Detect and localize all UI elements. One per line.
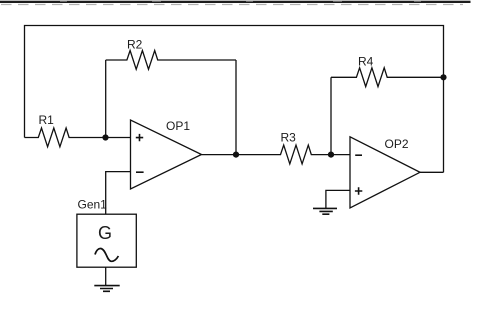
resistor R3 [236, 145, 331, 164]
svg-text:Gen1: Gen1 [78, 198, 108, 212]
wire feedback: node D up, across top, down to R1 input [25, 26, 444, 138]
ground symbol (Gen1) [94, 286, 119, 292]
wire node C to OP2 - input [331, 154, 350, 156]
svg-text:OP1: OP1 [166, 119, 190, 133]
wire node A to OP1 + input [106, 137, 131, 139]
svg-text:R4: R4 [358, 55, 374, 69]
svg-text:OP2: OP2 [385, 137, 409, 151]
wire OP2 output up to node D [443, 77, 445, 172]
ground symbol (OP2) [313, 208, 337, 214]
wire OP1 - input to Gen1 [106, 172, 131, 215]
svg-text:R3: R3 [281, 131, 297, 145]
svg-text:R1: R1 [39, 113, 55, 127]
wire OP2 + input to ground [326, 190, 350, 208]
OP2 inverting input marker (-) [355, 154, 362, 156]
op-amp OP1 body [131, 120, 202, 189]
OP2 noninverting input marker (+) [355, 187, 362, 194]
OP1 inverting input marker (-) [136, 171, 144, 173]
generator Gen1 body [77, 214, 136, 267]
node A (junction R1 / R2 / OP1 + input) [102, 134, 108, 140]
Gen1 sine wave symbol [95, 248, 118, 261]
node B (OP1 output junction) [233, 152, 239, 158]
resistor R4 [331, 68, 444, 87]
svg-text:R2: R2 [127, 38, 143, 52]
node C (junction R3 / R4 / OP2 - input) [328, 152, 334, 158]
wire node A up to R2 [105, 60, 107, 138]
svg-text:G: G [98, 223, 112, 243]
resistor R2 [106, 51, 236, 70]
wire node C up to R4 [330, 77, 332, 154]
wire OP2 output [420, 171, 444, 173]
OP1 noninverting input marker (+) [136, 134, 143, 141]
node D (R4 / feedback junction) [440, 74, 446, 80]
wire OP1 output to node B [202, 154, 237, 156]
wire R2 down to node B [235, 60, 237, 155]
op-amp OP2 body [350, 137, 420, 208]
wire Gen1 to ground [105, 267, 107, 285]
resistor R1 [25, 128, 106, 147]
